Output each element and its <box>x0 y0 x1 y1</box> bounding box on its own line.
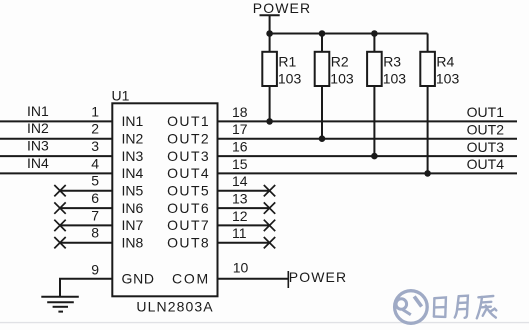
power rail wire <box>270 15 428 33</box>
logo character YUE (moon) <box>455 296 468 318</box>
svg-text:OUT1: OUT1 <box>167 113 210 129</box>
wire stub pin 14 <box>217 190 270 192</box>
wire stub pin 6 <box>60 207 113 209</box>
svg-text:10: 10 <box>233 260 249 276</box>
junction dot rail R1 <box>266 30 273 37</box>
svg-text:OUT2: OUT2 <box>467 121 505 137</box>
no-connect X pin 12 <box>264 220 275 231</box>
junction dot R2 to OUT2 <box>319 135 326 142</box>
resistor R3 vertical wires <box>373 34 375 52</box>
wire IN4 (pin 4) <box>0 172 113 174</box>
svg-text:IN4: IN4 <box>122 165 144 181</box>
svg-text:8: 8 <box>91 225 99 241</box>
svg-text:IN2: IN2 <box>122 130 144 146</box>
resistor R4 body <box>420 52 435 86</box>
junction dot R1 to OUT1 <box>266 118 273 125</box>
svg-text:GND: GND <box>122 271 155 287</box>
svg-text:13: 13 <box>232 191 248 207</box>
svg-text:OUT4: OUT4 <box>467 156 505 172</box>
svg-text:IN4: IN4 <box>27 155 49 171</box>
svg-text:COM: COM <box>172 271 210 287</box>
junction dot rail R3 <box>371 30 378 37</box>
wire pin 9 to ground <box>60 279 113 297</box>
svg-text:OUT4: OUT4 <box>167 165 210 181</box>
svg-text:1: 1 <box>91 103 99 119</box>
POWER port bar at pin 10 <box>287 271 289 288</box>
logo character CHEN <box>477 296 497 318</box>
svg-text:IN1: IN1 <box>122 113 144 129</box>
wire stub pin 8 <box>60 242 113 244</box>
wire IN3 (pin 3) <box>0 155 113 157</box>
svg-text:OUT1: OUT1 <box>467 104 505 120</box>
wire OUT4 (pin 15) <box>217 172 517 174</box>
wire OUT1 (pin 18) <box>217 120 517 122</box>
svg-text:17: 17 <box>232 121 248 137</box>
svg-text:4: 4 <box>91 155 99 171</box>
svg-text:R1: R1 <box>278 54 296 70</box>
svg-text:R3: R3 <box>383 54 401 70</box>
svg-text:OUT8: OUT8 <box>167 234 210 250</box>
no-connect X pin 14 <box>264 185 275 196</box>
wire IN1 (pin 1) <box>0 120 113 122</box>
wire IN2 (pin 2) <box>0 138 113 140</box>
junction dot rail R2 <box>319 30 326 37</box>
wire stub pin 7 <box>60 224 113 226</box>
resistor R4 vertical wires <box>427 34 429 52</box>
svg-text:IN3: IN3 <box>122 148 144 164</box>
svg-text:R2: R2 <box>331 54 349 70</box>
svg-text:OUT3: OUT3 <box>467 139 505 155</box>
wire stub pin 12 <box>217 224 270 226</box>
svg-text:IN3: IN3 <box>27 138 49 154</box>
svg-text:OUT5: OUT5 <box>167 182 210 198</box>
resistor R1 vertical wires <box>269 34 271 52</box>
resistor R2 body <box>315 52 330 86</box>
svg-text:103: 103 <box>436 70 460 86</box>
resistor R3 body <box>367 52 382 86</box>
svg-text:U1: U1 <box>112 87 130 103</box>
svg-text:IN7: IN7 <box>122 217 144 233</box>
wire pin 10 to POWER port <box>217 278 288 280</box>
no-connect X pin 7 <box>54 220 65 231</box>
svg-text:IN8: IN8 <box>122 234 144 250</box>
wire stub pin 5 <box>60 190 113 192</box>
svg-text:POWER: POWER <box>253 0 311 16</box>
svg-text:ULN2803A: ULN2803A <box>136 298 213 314</box>
junction dot R3 to OUT3 <box>371 153 378 160</box>
svg-text:OUT2: OUT2 <box>167 130 210 146</box>
svg-text:OUT7: OUT7 <box>167 217 210 233</box>
svg-text:R4: R4 <box>436 54 454 70</box>
svg-text:OUT6: OUT6 <box>167 200 210 216</box>
svg-text:11: 11 <box>232 225 247 241</box>
svg-text:103: 103 <box>383 70 407 86</box>
svg-text:POWER: POWER <box>289 269 347 285</box>
svg-text:103: 103 <box>278 70 302 86</box>
no-connect X pin 5 <box>54 185 65 196</box>
wire stub pin 13 <box>217 207 270 209</box>
logo character RI (sun) <box>434 297 446 317</box>
ground symbol <box>41 297 79 312</box>
wire OUT3 (pin 16) <box>217 155 517 157</box>
footer rule <box>0 322 529 324</box>
svg-text:IN1: IN1 <box>27 103 49 119</box>
svg-text:5: 5 <box>91 173 99 189</box>
svg-text:16: 16 <box>232 139 248 155</box>
svg-text:6: 6 <box>91 190 99 206</box>
svg-text:15: 15 <box>232 156 248 172</box>
svg-text:3: 3 <box>91 138 99 154</box>
no-connect X pin 13 <box>264 202 275 213</box>
resistor R2 vertical wires <box>321 34 323 52</box>
svg-text:IN6: IN6 <box>122 200 144 216</box>
no-connect X pin 8 <box>54 237 65 248</box>
svg-text:103: 103 <box>330 70 354 86</box>
no-connect X pin 11 <box>264 237 275 248</box>
svg-text:7: 7 <box>91 207 99 223</box>
svg-text:OUT3: OUT3 <box>167 148 210 164</box>
svg-text:IN5: IN5 <box>122 182 144 198</box>
no-connect X pin 6 <box>54 202 65 213</box>
svg-text:18: 18 <box>232 104 248 120</box>
junction dot R4 to OUT4 <box>424 170 431 177</box>
svg-text:14: 14 <box>232 173 248 189</box>
wire stub pin 11 <box>217 242 270 244</box>
svg-text:12: 12 <box>232 208 248 224</box>
svg-text:2: 2 <box>91 121 99 137</box>
IC U1 body <box>112 103 217 296</box>
svg-text:IN2: IN2 <box>27 120 49 136</box>
svg-text:9: 9 <box>91 262 99 278</box>
power bar symbol top <box>260 14 280 16</box>
logo icon circle <box>395 291 428 324</box>
resistor R1 body <box>262 52 277 86</box>
wire OUT2 (pin 17) <box>217 138 517 140</box>
